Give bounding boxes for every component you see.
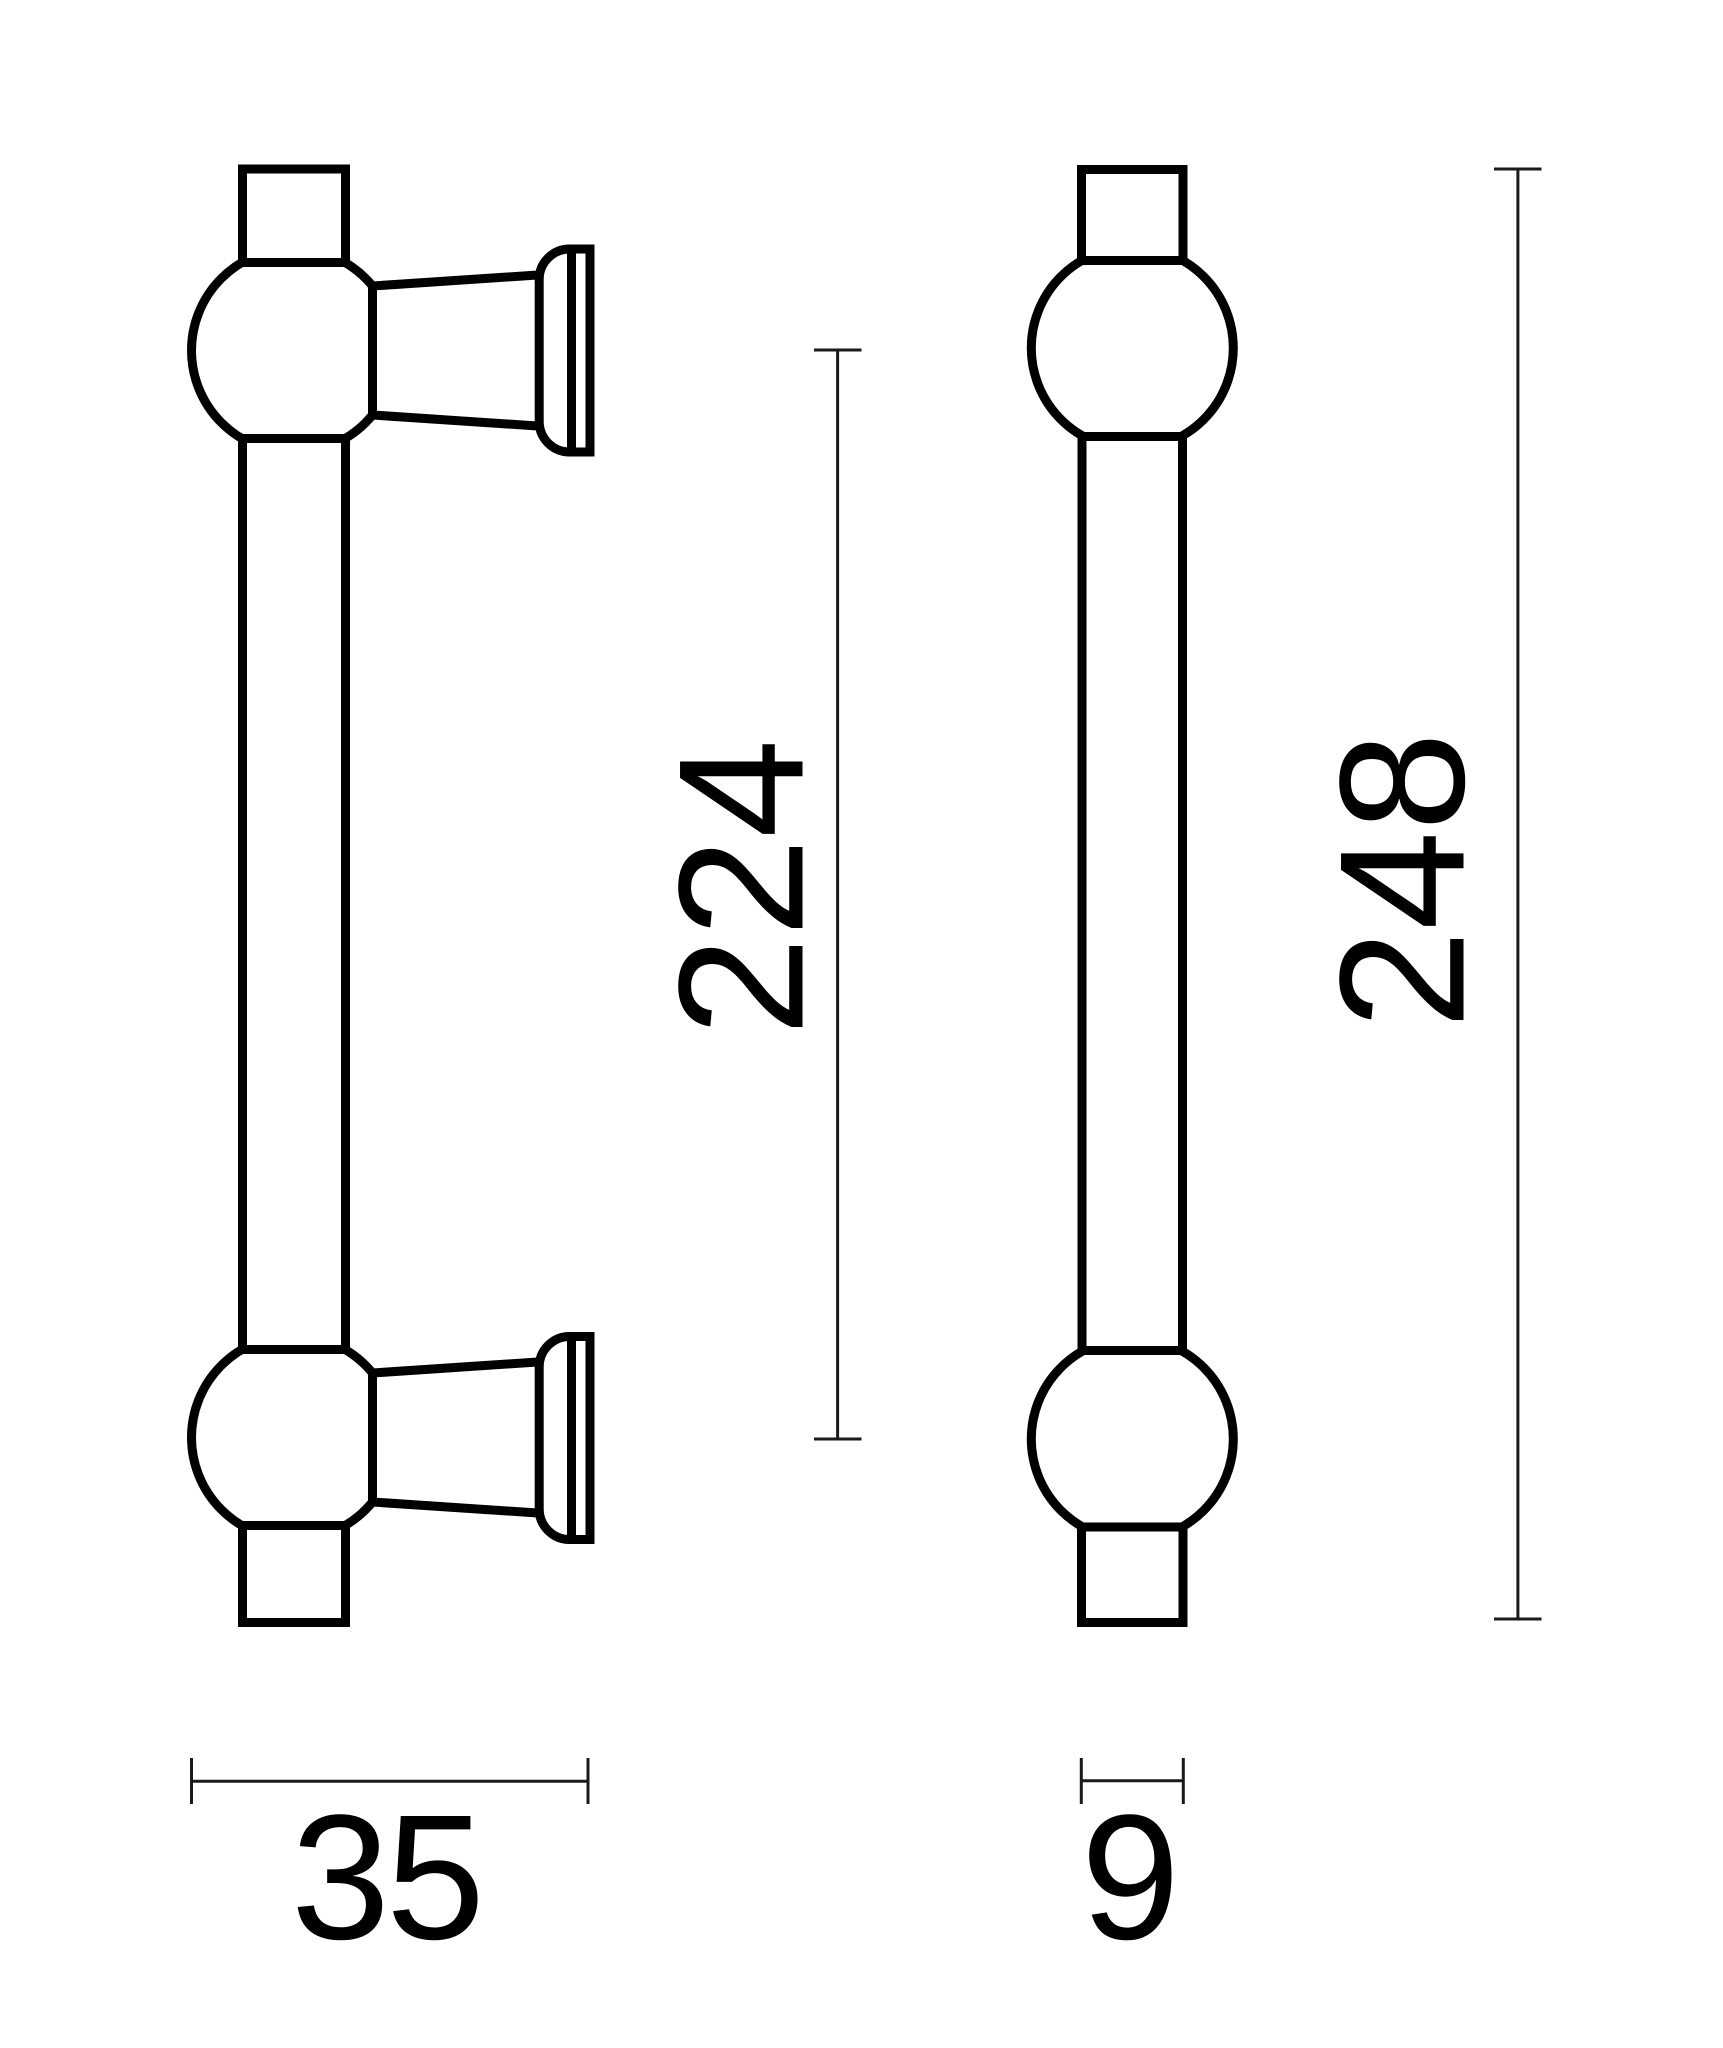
dimension 9 right tick bbox=[1182, 1758, 1185, 1804]
dimension 224 bottom tick bbox=[814, 1438, 862, 1441]
svg-text:224: 224 bbox=[642, 739, 841, 1036]
dimension line 224 (between post centers) bbox=[836, 350, 839, 1439]
right view: top ball bbox=[1031, 247, 1233, 449]
right view: shaft bbox=[1082, 437, 1183, 1351]
left view: bottom post cone outline bbox=[373, 1362, 546, 1514]
left view: bottom post cone fill bbox=[373, 1362, 546, 1514]
dimension 248 bottom tick bbox=[1494, 1618, 1542, 1621]
left view: top end cap bbox=[243, 169, 346, 263]
svg-text:9: 9 bbox=[1081, 1778, 1180, 1977]
right view: top end cap bbox=[1082, 170, 1184, 261]
dimension 35 left tick bbox=[190, 1758, 193, 1804]
svg-text:35: 35 bbox=[291, 1778, 481, 1977]
left view: bottom ball bbox=[192, 1336, 396, 1540]
right view: bottom ball bbox=[1031, 1338, 1233, 1540]
dimension line 35 (depth) bbox=[192, 1780, 589, 1783]
dimension 248 top tick bbox=[1494, 168, 1542, 171]
dimension 224 top tick bbox=[814, 349, 862, 352]
svg-text:248: 248 bbox=[1303, 732, 1502, 1029]
left view: top post cone fill bbox=[373, 275, 546, 427]
right view: bottom end cap bbox=[1082, 1527, 1184, 1623]
left view: bottom post flange inner line bbox=[567, 1341, 576, 1536]
left view: top post flange inner line bbox=[567, 253, 576, 448]
left view: top post flange bbox=[539, 249, 590, 452]
dimension 9 left tick bbox=[1080, 1758, 1083, 1804]
dimension 35 right tick bbox=[587, 1758, 590, 1804]
left view: top ball bbox=[192, 249, 396, 453]
left view: bottom post flange bbox=[539, 1336, 590, 1539]
left view: bottom end cap bbox=[243, 1526, 346, 1623]
dimension line 248 (overall length) bbox=[1516, 169, 1519, 1619]
left view: shaft bbox=[243, 439, 346, 1350]
dimension line 9 (width) bbox=[1081, 1779, 1183, 1782]
left view: top post cone outline bbox=[373, 275, 546, 427]
